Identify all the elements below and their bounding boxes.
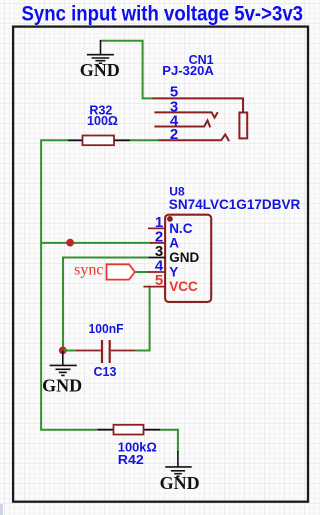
pin 2 line with contact	[158, 135, 229, 142]
svg-text:sync: sync	[74, 262, 103, 279]
svg-text:5: 5	[155, 272, 163, 289]
svg-text:GND: GND	[42, 375, 82, 395]
U8 pin 4 stub	[147, 271, 165, 273]
svg-text:Sync input with voltage 5v->3v: Sync input with voltage 5v->3v3	[22, 1, 304, 25]
pin 4 line with contact	[154, 121, 210, 128]
U8 pin 5 stub	[143, 286, 165, 288]
wire: R42 right to GND3	[160, 430, 178, 452]
canvas corner artifact bottom-left	[0, 504, 3, 515]
op-amp/buffer U8 SN74LVC1G17DBVR body	[165, 215, 211, 302]
ground GND1 (top)	[87, 40, 114, 63]
svg-text:Y: Y	[169, 265, 178, 280]
net label sync (flag + wire to U8 pin 4)	[135, 271, 147, 273]
wire from left vertical to R32	[41, 139, 68, 141]
svg-text:SN74LVC1G17DBVR: SN74LVC1G17DBVR	[169, 197, 301, 212]
wire: junction to C13 left lead	[63, 350, 76, 352]
capacitor C13	[76, 340, 135, 363]
ground GND2 (middle left)	[50, 351, 77, 376]
svg-text:2: 2	[170, 126, 178, 143]
junction at GND2 node	[59, 347, 67, 355]
pin 5 line	[153, 98, 244, 112]
svg-text:PJ-320A: PJ-320A	[162, 64, 214, 78]
wire: VCC net from U8 pin5 down to C13 right lead	[135, 286, 150, 351]
svg-text:100Ω: 100Ω	[87, 114, 118, 128]
pin 1 orientation dot	[167, 216, 173, 222]
jack sleeve rectangle	[239, 113, 247, 139]
resistor R32	[68, 136, 130, 146]
pin 3 line with contact	[154, 112, 217, 117]
svg-text:GND: GND	[160, 473, 200, 493]
U8 pin 3 stub (GND, black)	[149, 257, 165, 259]
wire: A net horizontal to U8 pin 2	[41, 242, 151, 244]
U8 pin 1 stub	[148, 227, 165, 229]
wire: U8 pin3 GND net down to C13/GND2	[63, 258, 150, 351]
svg-text:100nF: 100nF	[89, 322, 124, 336]
svg-text:N.C: N.C	[169, 221, 193, 236]
junction on A net	[66, 239, 74, 247]
svg-text:A: A	[169, 235, 179, 250]
svg-text:GND: GND	[169, 250, 199, 265]
wire GND1 net: top ground to CN1 pin 5	[101, 41, 154, 99]
ground GND3 (bottom)	[165, 451, 192, 476]
svg-text:C13: C13	[94, 365, 117, 379]
U8 pin 2 stub	[150, 242, 165, 244]
wire from R32 to CN1 pin 2	[130, 139, 159, 141]
connector CN1 PJ-320A audio jack symbol	[153, 98, 248, 141]
wire: left vertical rail (R32 left / R42 left / A node)	[41, 139, 97, 429]
resistor R42	[98, 425, 161, 435]
svg-text:R42: R42	[118, 453, 144, 467]
svg-text:VCC: VCC	[169, 279, 198, 294]
svg-text:GND: GND	[80, 60, 120, 80]
